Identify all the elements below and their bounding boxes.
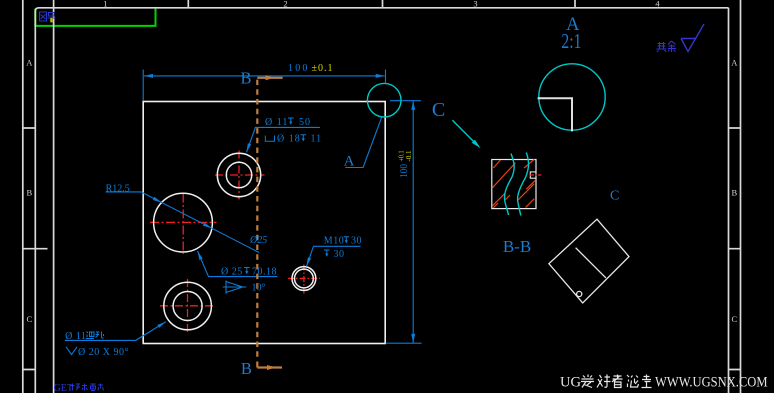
svg-text:Ø 18: Ø 18 [277,134,301,145]
svg-text:Ø25: Ø25 [249,235,267,246]
svg-text:M10: M10 [324,236,344,247]
svg-text:±0.1: ±0.1 [312,63,334,74]
svg-text:UG: UG [560,375,582,391]
svg-text:100: 100 [288,63,310,74]
svg-text:B: B [26,188,32,198]
svg-text:B: B [240,69,251,88]
svg-text:Ø 11: Ø 11 [65,331,86,342]
svg-text:11: 11 [311,134,323,145]
svg-text:C: C [731,314,737,324]
svg-text:30: 30 [334,249,345,260]
svg-text:A: A [26,58,33,68]
svg-text:A: A [344,153,355,169]
svg-text:WWW.UGSNX.COM: WWW.UGSNX.COM [655,375,768,391]
svg-text:50: 50 [299,117,311,128]
svg-text:3: 3 [473,0,477,8]
svg-text:Ø 20 X 90°: Ø 20 X 90° [78,347,129,358]
svg-text:GET: GET [54,383,73,393]
svg-text:C: C [432,99,445,121]
svg-text:-0.1: -0.1 [404,150,413,161]
svg-text:2:1: 2:1 [561,29,581,53]
svg-text:B: B [731,188,737,198]
svg-text:Ø 25: Ø 25 [221,266,243,277]
svg-text:C: C [26,314,32,324]
svg-text:C: C [610,189,619,204]
svg-text:30: 30 [351,236,362,247]
svg-text:1: 1 [103,0,107,8]
svg-text:70.18: 70.18 [252,266,277,277]
svg-text:Ø 11: Ø 11 [265,117,288,128]
svg-text:10°: 10° [252,283,266,294]
svg-text:B: B [241,359,252,378]
svg-text:B-B: B-B [503,237,531,256]
svg-text:2: 2 [283,0,287,8]
svg-text:100: 100 [398,164,410,178]
svg-text:R12.5: R12.5 [106,183,130,194]
svg-text:A: A [731,58,738,68]
